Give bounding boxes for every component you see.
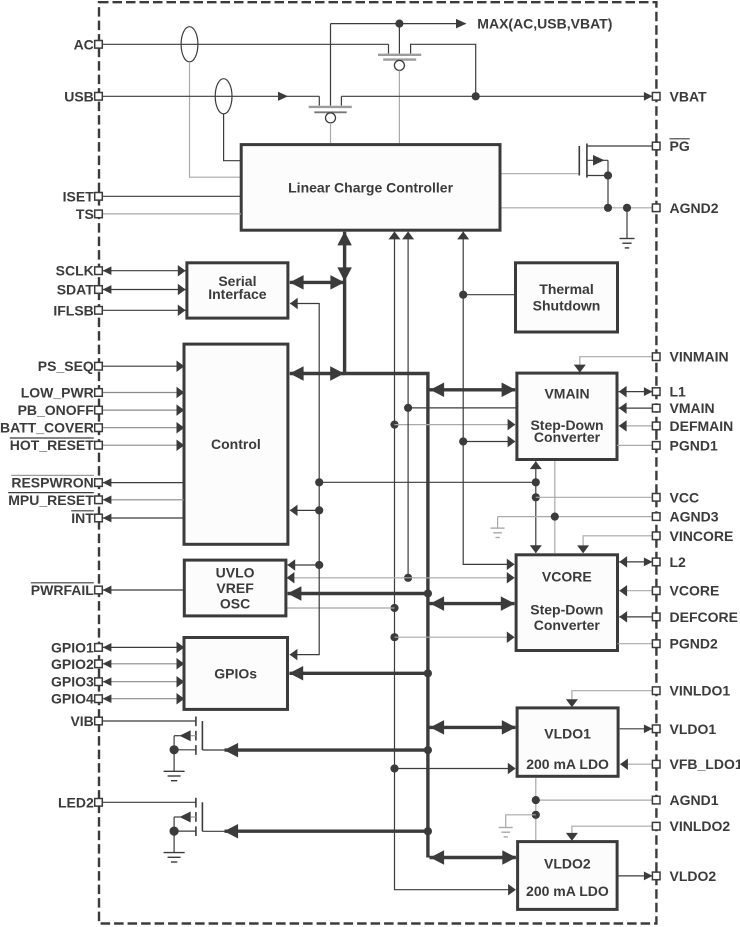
transistor Q4 VIB driver: [174, 717, 224, 755]
wire V1 branch into VCORE: [395, 631, 515, 643]
bus branch to LED2 driver gate: [224, 824, 428, 839]
wire V3 branch to Thermal Shutdown: [463, 294, 515, 296]
node V3-thermal branch: [459, 291, 467, 299]
wire AGND3 vertical link: [554, 461, 556, 553]
svg-text:BATT_COVER: BATT_COVER: [0, 420, 94, 436]
wire V4 branch into UVLO block: [287, 559, 319, 571]
node V4-UVLO branch: [315, 561, 323, 569]
svg-text:OSC: OSC: [220, 595, 250, 611]
pin AGND2: [652, 200, 718, 216]
svg-text:TS: TS: [76, 206, 94, 222]
pin GPIO1: [51, 639, 102, 655]
svg-text:DEFMAIN: DEFMAIN: [670, 418, 734, 434]
wire V1 reference rail: [389, 231, 516, 895]
svg-text:L2: L2: [670, 554, 687, 570]
bus branch to VMAIN converter: [430, 383, 516, 398]
bus main serial/control bus: [337, 231, 428, 857]
wire VREF row to UVLO and VCORE: [287, 572, 515, 584]
svg-text:RESPWRON: RESPWRON: [11, 475, 93, 491]
wire V3 branch into VMAIN: [463, 436, 515, 448]
node VBAT junction: [472, 92, 480, 100]
pin VBAT: [652, 88, 707, 104]
wire VCC row to VMAIN output rail: [319, 481, 536, 483]
node AGND1 junction: [532, 796, 540, 804]
wire LED2 line: [102, 801, 196, 803]
pin GPIO3: [51, 674, 102, 690]
svg-text:USB: USB: [64, 88, 94, 104]
pin HOT_RESET: [10, 437, 103, 453]
block U9 VLDO1 200mA LDO: [517, 708, 618, 776]
svg-text:VCC: VCC: [670, 489, 700, 505]
pin DEFMAIN: [652, 418, 733, 434]
svg-text:VLDO2: VLDO2: [670, 868, 717, 884]
node V2-VMAIN branch: [404, 404, 412, 412]
pin VINMAIN: [652, 349, 728, 365]
pin PG: [652, 138, 689, 154]
wire DEFMAIN line: [619, 420, 653, 432]
svg-text:VCORE: VCORE: [670, 583, 720, 599]
ground at Q5 source: [164, 831, 185, 862]
wire V1 branch into VMAIN: [395, 419, 516, 431]
pin PS_SEQ: [38, 358, 103, 374]
wire AC input line: [102, 43, 388, 45]
wire MAX(AC,USB,VBAT) output: [331, 19, 467, 29]
svg-text:UVLO: UVLO: [216, 565, 255, 581]
svg-text:Converter: Converter: [534, 617, 601, 633]
node AGND1 ground junction: [532, 811, 540, 819]
wire VFB_LDO1 line: [620, 758, 652, 770]
pin VINLDO1: [652, 683, 730, 699]
wire PGND1 line: [617, 444, 652, 446]
wire LOW_PWR line: [102, 387, 184, 399]
current sense ellipse on USB line: [215, 79, 232, 114]
wire GPIO2 line: [102, 658, 184, 670]
wire Q3 source to AGND2: [607, 160, 609, 208]
transistor Q2 - source stub: [340, 96, 342, 105]
transistor Q3 PG driver - gate bar: [578, 146, 580, 176]
ground at AGND1: [499, 815, 536, 837]
wire AC sense to charge controller: [190, 62, 241, 177]
wire V2 feedback rail: [402, 231, 414, 577]
svg-text:VLDO1: VLDO1: [670, 721, 717, 737]
wire PGND2 line: [618, 643, 653, 645]
wire GPIO1 line: [102, 642, 184, 654]
transistor Q1 AC switch - drain stub: [388, 44, 390, 53]
node V2 end junction: [404, 574, 412, 582]
svg-text:SCLK: SCLK: [56, 263, 94, 279]
svg-text:DEFCORE: DEFCORE: [670, 609, 738, 625]
pin VCC: [652, 489, 699, 505]
svg-text:VFB_LDO1: VFB_LDO1: [670, 756, 740, 772]
bus branch to VCORE converter: [430, 596, 515, 611]
svg-text:VINCORE: VINCORE: [670, 528, 734, 544]
pin VINLDO2: [652, 818, 730, 834]
block U2 Serial Interface: [187, 263, 288, 318]
wire AGND3 line: [498, 516, 653, 518]
node AGND2 junction 1: [604, 204, 612, 212]
wire VCC to pin: [536, 496, 652, 498]
pin DEFCORE: [652, 609, 738, 625]
svg-text:ISET: ISET: [63, 188, 95, 204]
bus branch to VIB driver gate: [224, 743, 428, 758]
node bus-GPIOs junction: [424, 669, 432, 677]
pin LED2: [58, 794, 102, 810]
wire USB input line (left of switch): [102, 92, 319, 101]
svg-text:Control: Control: [211, 436, 261, 452]
svg-text:VINMAIN: VINMAIN: [670, 349, 729, 365]
wire BATT_COVER line: [102, 422, 184, 434]
pin SCLK: [56, 263, 103, 279]
svg-text:PWRFAIL: PWRFAIL: [31, 582, 94, 598]
svg-text:AGND2: AGND2: [670, 200, 719, 216]
svg-text:Interface: Interface: [208, 286, 267, 302]
current sense ellipse on AC line: [181, 27, 198, 62]
wire VINLDO2 line: [566, 826, 652, 841]
svg-text:GPIO4: GPIO4: [51, 691, 94, 707]
wire PWRFAIL line: [102, 586, 184, 595]
svg-text:PGND1: PGND1: [670, 437, 718, 453]
wire Q3 gate drive from charge controller: [502, 173, 580, 175]
pin AC: [74, 36, 103, 52]
svg-text:PS_SEQ: PS_SEQ: [38, 358, 94, 374]
pin ISET: [63, 188, 103, 204]
wire SDAT line: [102, 284, 186, 296]
pin VINCORE: [652, 528, 733, 544]
svg-text:GPIO3: GPIO3: [51, 674, 94, 690]
transistor Q3 - bulk stub: [587, 175, 608, 177]
wire AGND2 line: [502, 207, 653, 209]
transistor Q2 - gate bar: [314, 111, 346, 113]
svg-text:Converter: Converter: [534, 429, 601, 445]
wire OSC output from UVLO block: [287, 607, 395, 609]
svg-text:VINLDO1: VINLDO1: [670, 683, 731, 699]
node AGND2 junction 2: [623, 204, 631, 212]
wire IFLSB line: [102, 305, 186, 317]
transistor Q2 - channel bar: [309, 106, 352, 108]
transistor Q5 LED2 driver: [174, 798, 224, 836]
transistor Q3 - source arrow: [587, 155, 608, 166]
svg-text:VMAIN: VMAIN: [670, 400, 715, 416]
node V5-VCC row junction: [532, 478, 540, 486]
IC boundary (dashed border): [99, 2, 656, 923]
pin VFB_LDO1: [652, 756, 740, 772]
wire VMAIN feedback line: [619, 402, 653, 414]
wire L2 line: [619, 556, 653, 568]
label MAX(AC,USB,VBAT): [477, 15, 612, 31]
svg-text:AGND1: AGND1: [670, 792, 719, 808]
svg-text:VIB: VIB: [70, 713, 93, 729]
svg-text:AC: AC: [74, 36, 94, 52]
pin VIB: [70, 713, 102, 729]
pin MPU_RESET: [8, 492, 102, 508]
svg-text:200 mA LDO: 200 mA LDO: [526, 756, 609, 772]
wire V3 thermal/enable rail: [457, 231, 514, 570]
wire USB sense to charge controller: [224, 114, 241, 161]
pin BATT_COVER: [0, 420, 102, 436]
transistor Q1 - channel bar: [378, 54, 421, 56]
transistor Q3 - channel bar: [586, 144, 588, 178]
node V4-Control branch: [315, 506, 323, 514]
bus branch to Control: [290, 366, 345, 381]
block U10 VLDO2 200mA LDO: [518, 842, 618, 910]
block U5 GPIOs: [184, 638, 288, 710]
svg-text:PB_ONOFF: PB_ONOFF: [18, 402, 95, 418]
svg-text:VLDO1: VLDO1: [544, 726, 591, 742]
pin L1: [652, 384, 686, 400]
wire VBAT rail to pin: [341, 92, 652, 101]
node V1-VLDO1 branch: [390, 764, 398, 772]
wire Q1 gate drive from charge controller: [398, 70, 400, 143]
pin GPIO2: [51, 656, 102, 672]
svg-text:HOT_RESET: HOT_RESET: [10, 437, 94, 453]
wire VLDO2 output line: [617, 872, 653, 881]
wire GPIO3 line: [102, 676, 184, 688]
bus branch to VLDO1: [430, 720, 516, 735]
wire DEFCORE line: [619, 611, 652, 623]
svg-text:SDAT: SDAT: [57, 282, 95, 298]
svg-text:VINLDO2: VINLDO2: [670, 818, 731, 834]
transistor Q2 USB switch - drain stub: [318, 96, 320, 105]
pin PWRFAIL: [31, 582, 102, 598]
node V1-VCORE branch: [390, 633, 398, 641]
pin INT: [71, 510, 102, 526]
pin VCORE: [652, 583, 719, 599]
wire HOT_RESET line: [102, 439, 184, 451]
svg-text:Linear Charge Controller: Linear Charge Controller: [288, 179, 453, 195]
node V5-VCC pin junction: [532, 493, 540, 501]
wire AGND1 vertical link: [535, 778, 537, 842]
wire V5 VCC link VMAIN-VCORE: [530, 461, 542, 553]
wire VINMAIN line: [574, 357, 652, 373]
pin VLDO1: [652, 721, 716, 737]
node Q3 source-bulk tie: [604, 171, 612, 179]
wire RESPWRON line: [102, 478, 184, 487]
node V4-VCC branch: [315, 478, 323, 486]
node Q4 source-bulk tie: [170, 745, 179, 754]
svg-text:GPIOs: GPIOs: [214, 665, 257, 681]
transistor Q2 - bulk connection to MAX: [330, 24, 332, 106]
bus branch to GPIOs block: [289, 666, 428, 681]
svg-text:GPIO2: GPIO2: [51, 656, 94, 672]
svg-text:VBAT: VBAT: [670, 88, 708, 104]
wire V4 VCC distribution rail: [290, 298, 320, 661]
transistor Q2 - gate bubble (PMOS): [326, 113, 336, 123]
wire VIB line: [102, 720, 196, 722]
block U8 VCORE Step-Down Converter: [516, 555, 617, 651]
svg-text:LED2: LED2: [58, 794, 94, 810]
svg-text:200 mA LDO: 200 mA LDO: [526, 883, 609, 899]
ground at Q4 source: [164, 750, 185, 781]
pin SDAT: [57, 282, 103, 298]
pin PGND1: [652, 437, 718, 453]
node V1-VMAIN branch: [390, 421, 398, 429]
wire V2 branch into VMAIN: [408, 407, 517, 409]
node bus-UVLO junction: [424, 589, 432, 597]
wire SCLK line: [102, 265, 186, 277]
node Q5 source-bulk tie: [170, 827, 179, 836]
svg-text:MPU_RESET: MPU_RESET: [8, 492, 94, 508]
svg-text:Thermal: Thermal: [539, 281, 593, 297]
svg-text:VREF: VREF: [216, 580, 254, 596]
pin LOW_PWR: [21, 385, 103, 401]
wire GPIO4 line: [102, 693, 184, 705]
bus branch to Serial Interface: [290, 275, 345, 290]
wire VCORE feedback line: [619, 585, 652, 597]
node MAX junction at Q1 bulk: [395, 20, 403, 28]
transistor Q1 - gate bubble (PMOS): [394, 60, 404, 70]
node bus-VIB junction: [424, 746, 432, 754]
wire ISET line: [102, 195, 241, 197]
wire MPU_RESET line: [102, 495, 184, 504]
node V1-OSC branch: [390, 604, 398, 612]
wire VINCORE line: [577, 536, 652, 554]
pin TS: [76, 206, 102, 222]
pin VMAIN: [652, 400, 714, 416]
pin RESPWRON: [11, 475, 102, 491]
svg-text:Shutdown: Shutdown: [533, 297, 601, 313]
wire VLDO1 output line: [620, 724, 653, 733]
svg-text:IFLSB: IFLSB: [53, 302, 93, 318]
block U6 Thermal Shutdown: [516, 263, 618, 332]
wire PG line to pin: [587, 145, 652, 147]
pin AGND3: [652, 509, 718, 525]
svg-text:GPIO1: GPIO1: [51, 639, 94, 655]
wire PB_ONOFF line: [102, 404, 184, 416]
wire V1 branch into VLDO1: [395, 763, 516, 775]
svg-text:INT: INT: [71, 510, 94, 526]
wire L1 line: [619, 386, 653, 398]
svg-text:PG: PG: [670, 138, 690, 154]
bus branch to UVLO block: [287, 586, 428, 601]
svg-text:VCORE: VCORE: [542, 569, 592, 585]
bus branch to VLDO2: [430, 850, 517, 865]
block U1 Linear Charge Controller: [241, 145, 500, 231]
pin IFLSB: [53, 302, 102, 318]
pin PB_ONOFF: [18, 402, 103, 418]
wire V4 branch into Control: [290, 505, 320, 517]
svg-text:PGND2: PGND2: [670, 636, 718, 652]
wire INT line: [102, 514, 184, 523]
node AGND3 junction: [551, 513, 559, 521]
block U7 VMAIN Step-Down Converter: [517, 373, 617, 459]
pin VLDO2: [652, 868, 716, 884]
node bus-LED2 junction: [424, 827, 432, 835]
pin PGND2: [652, 636, 718, 652]
node V3-VMAIN branch: [459, 437, 467, 445]
svg-text:L1: L1: [670, 384, 687, 400]
ground at AGND2: [620, 208, 635, 248]
wire TS line: [102, 213, 241, 215]
pin L2: [652, 554, 686, 570]
svg-text:VLDO2: VLDO2: [544, 856, 591, 872]
pin GPIO4: [51, 691, 102, 707]
transistor Q1 - bulk connection to MAX: [398, 24, 400, 54]
svg-text:Step-Down: Step-Down: [530, 602, 603, 618]
svg-text:VMAIN: VMAIN: [544, 386, 589, 402]
pin USB: [64, 88, 102, 104]
svg-text:MAX(AC,USB,VBAT): MAX(AC,USB,VBAT): [477, 15, 612, 31]
transistor Q1 - gate bar: [383, 58, 416, 60]
ground at AGND3: [491, 517, 505, 538]
wire VINLDO1 line: [566, 691, 652, 708]
wire AGND1 line: [536, 799, 652, 801]
wire Q2 gate drive from charge controller: [330, 123, 332, 143]
svg-text:AGND3: AGND3: [670, 509, 719, 525]
block U4 UVLO VREF OSC: [184, 560, 286, 616]
svg-text:LOW_PWR: LOW_PWR: [21, 385, 94, 401]
block U3 Control: [184, 344, 288, 544]
transistor Q1 - source stub to VBAT rail: [411, 44, 476, 96]
pin AGND1: [652, 792, 718, 808]
wire PS_SEQ line: [102, 360, 184, 372]
